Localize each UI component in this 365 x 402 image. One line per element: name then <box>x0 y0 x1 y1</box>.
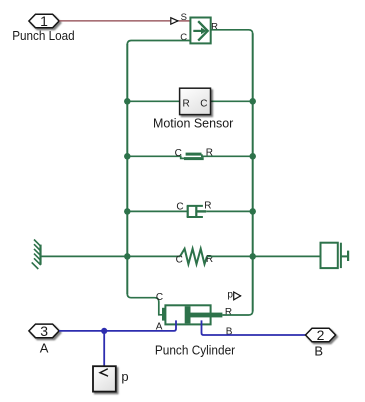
punch cylinder block <box>162 305 222 324</box>
junction: left rail / spring row <box>124 253 131 260</box>
PS signal wire: port 1 to source S <box>59 20 170 22</box>
wire: left rail to damper C <box>127 210 187 212</box>
svg-text:3: 3 <box>40 323 48 339</box>
svg-text:1: 1 <box>40 13 48 29</box>
wire: motion sensor C to right rail <box>211 100 253 102</box>
svg-text:Punch Cylinder: Punch Cylinder <box>155 342 236 357</box>
junction: left rail / sensor row <box>124 98 131 105</box>
motion sensor block <box>180 88 211 114</box>
left rail <box>126 44 128 294</box>
svg-text:C: C <box>176 201 183 212</box>
wire: left rail to friction C <box>127 156 184 158</box>
svg-text:C: C <box>156 292 163 303</box>
svg-text:p: p <box>121 369 128 384</box>
force source U1 (Ideal Force Source) <box>190 18 210 44</box>
wire: friction R to right rail <box>202 154 253 156</box>
inport 3 "A" <box>29 323 59 339</box>
svg-text:B: B <box>314 343 323 358</box>
svg-text:R: R <box>225 307 232 318</box>
junction: right rail / damper row <box>249 208 256 215</box>
junction: A wire / p tap <box>101 328 107 334</box>
hydraulic wire: tap to pressure display <box>103 331 105 366</box>
spring element (translational spring) <box>180 249 207 264</box>
svg-text:C: C <box>176 254 183 265</box>
inport 1 "Punch Load" <box>29 13 59 29</box>
svg-text:B: B <box>226 327 233 338</box>
svg-text:S: S <box>181 12 187 23</box>
pressure display block (p) <box>93 366 116 391</box>
svg-text:R: R <box>204 201 211 212</box>
svg-text:Punch Load: Punch Load <box>12 28 74 43</box>
svg-text:2: 2 <box>317 327 325 343</box>
wire stub into S port <box>179 20 190 22</box>
wire: cylinder R to right rail <box>222 311 252 315</box>
wire: wall to spring C <box>41 255 181 257</box>
junction: left rail / damper row <box>124 208 131 215</box>
junction: right rail / friction row <box>249 153 256 160</box>
hard stop block <box>321 243 349 268</box>
svg-text:C: C <box>200 98 207 109</box>
wire: left rail to cylinder C <box>127 294 162 315</box>
outport 2 "B" <box>306 327 336 343</box>
junction: right rail / spring row <box>249 253 256 260</box>
svg-text:A: A <box>40 340 49 355</box>
friction element (translational friction) <box>184 153 204 161</box>
svg-text:R: R <box>211 22 218 33</box>
svg-text:R: R <box>183 98 190 109</box>
wire: spring R to hard stop <box>207 255 321 257</box>
mechanical reference (wall) <box>32 240 41 270</box>
right rail <box>252 33 254 311</box>
svg-text:Motion Sensor: Motion Sensor <box>153 116 234 131</box>
svg-text:C: C <box>180 32 187 43</box>
svg-text:C: C <box>175 148 182 159</box>
pin label p + PS output port (cylinder) <box>227 290 241 301</box>
wire: damper R to right rail <box>206 210 253 212</box>
junction: left rail / friction row <box>124 153 131 160</box>
hydraulic wire: port 3 to cylinder A <box>59 320 176 331</box>
hydraulic wire: cylinder B to port 2 <box>202 320 306 335</box>
damper element (translational damper) <box>187 206 207 217</box>
junction: right rail / sensor row <box>249 98 256 105</box>
wire: source C to left rail <box>127 41 190 45</box>
wire: source R to right rail <box>211 30 253 34</box>
signal arrowhead at S <box>171 18 178 25</box>
svg-text:p: p <box>227 290 233 301</box>
wire: left rail to motion sensor R <box>127 100 179 102</box>
